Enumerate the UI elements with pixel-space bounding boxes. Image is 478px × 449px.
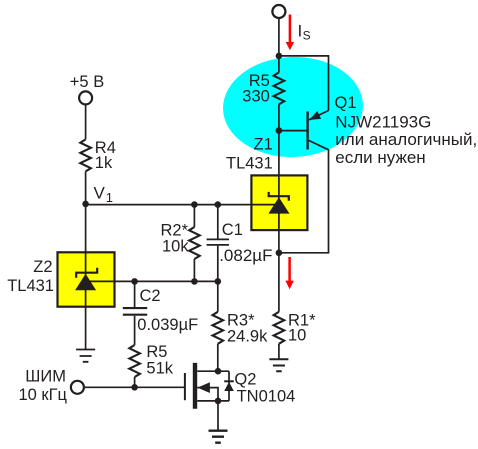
terminal PWM input bbox=[71, 381, 84, 394]
svg-text:.082µF: .082µF bbox=[219, 246, 272, 265]
resistor R1* 10 bbox=[278, 253, 280, 312]
Q2 body diode branch bbox=[228, 371, 230, 401]
terminal +5V bbox=[79, 91, 92, 104]
svg-text:R5: R5 bbox=[146, 343, 167, 361]
Z1 triangle bbox=[268, 197, 289, 213]
svg-text:ШИМ: ШИМ bbox=[25, 368, 66, 386]
wire top node to Q1 emitter bbox=[279, 56, 329, 111]
transistor Q2 channel bar bbox=[193, 363, 197, 409]
svg-text:если нужен: если нужен bbox=[335, 148, 425, 167]
svg-text:10 кГц: 10 кГц bbox=[18, 386, 67, 404]
node C2 top bbox=[131, 278, 138, 285]
transistor Q2 body arrow bbox=[197, 388, 218, 401]
node V1 bbox=[82, 201, 89, 208]
node R5 51k bottom bbox=[131, 384, 138, 391]
svg-text:10k: 10k bbox=[162, 238, 189, 256]
wire V1 down to Z2 and ground bbox=[85, 204, 87, 350]
svg-text:или аналогичный,: или аналогичный, bbox=[335, 130, 477, 149]
svg-text:TL431: TL431 bbox=[7, 277, 54, 295]
svg-text:TN0104: TN0104 bbox=[237, 388, 296, 406]
node top bbox=[276, 53, 283, 60]
TL431 shunt regulator Z1 box bbox=[251, 175, 307, 230]
svg-text:C2: C2 bbox=[140, 287, 161, 305]
resistor R4 1k bbox=[85, 104, 87, 139]
transistor Q1 collector bbox=[279, 140, 329, 252]
transistor Q1 emitter bbox=[309, 111, 329, 120]
resistor R5 330 bbox=[278, 56, 280, 73]
node Z1 anode bbox=[276, 250, 283, 257]
node Q2 source bbox=[215, 398, 222, 405]
Q2 body diode bbox=[224, 382, 234, 391]
capacitor C1 bbox=[217, 205, 219, 239]
Z2 cathode bar bbox=[76, 268, 97, 278]
node R2 top bbox=[191, 201, 198, 208]
svg-text:TL431: TL431 bbox=[226, 155, 273, 173]
svg-text:10: 10 bbox=[288, 327, 306, 345]
wire V1 bus to Z1 reference bbox=[86, 204, 276, 206]
resistor R3* 24.9k bbox=[217, 281, 219, 311]
transistor Q2 drain bbox=[197, 370, 229, 372]
node Q2 drain bbox=[215, 368, 222, 375]
wire PWM to Q2 gate bbox=[84, 386, 184, 388]
svg-text:I: I bbox=[298, 22, 303, 41]
svg-text:0.039µF: 0.039µF bbox=[137, 316, 198, 334]
terminal Is output bbox=[272, 5, 285, 18]
svg-text:Z1: Z1 bbox=[254, 136, 273, 154]
svg-text:Q2: Q2 bbox=[234, 371, 256, 389]
resistor R2* 10k bbox=[193, 205, 195, 227]
svg-text:C1: C1 bbox=[222, 221, 243, 239]
ground under Q2 bbox=[217, 401, 219, 431]
node C1 top bbox=[215, 201, 222, 208]
node base bbox=[276, 127, 283, 134]
svg-text:+5 В: +5 В bbox=[70, 73, 104, 91]
svg-text:24.9k: 24.9k bbox=[227, 328, 268, 346]
svg-text:S: S bbox=[303, 28, 311, 42]
TL431 shunt regulator Z2 box bbox=[58, 252, 115, 306]
node R2 bottom bbox=[191, 278, 198, 285]
transistor Q2 source bbox=[197, 400, 229, 402]
svg-text:V: V bbox=[94, 183, 106, 202]
current arrow at R1 bbox=[288, 257, 291, 281]
transistor Q2 gate bar bbox=[184, 373, 186, 400]
transistor Q1 base wire bbox=[279, 130, 307, 132]
svg-text:330: 330 bbox=[242, 87, 270, 105]
svg-text:1k: 1k bbox=[95, 154, 113, 172]
transistor Q1 base bar bbox=[306, 111, 308, 149]
Z2 reference wire bbox=[90, 280, 218, 282]
Z2 triangle bbox=[75, 274, 96, 291]
wire Z1 cathode-anode through box bbox=[278, 131, 280, 253]
svg-text:Z2: Z2 bbox=[33, 258, 52, 276]
resistor R5 51k bbox=[129, 345, 140, 377]
svg-text:NJW21193G: NJW21193G bbox=[335, 112, 431, 131]
svg-text:Q1: Q1 bbox=[335, 94, 357, 112]
ground under Z2 bbox=[76, 350, 95, 362]
svg-text:1: 1 bbox=[106, 190, 113, 205]
Z1 cathode bar bbox=[269, 192, 289, 201]
highlight ellipse around R5 and Q1 bbox=[221, 55, 364, 160]
current arrow Is bbox=[289, 15, 292, 43]
svg-text:51k: 51k bbox=[146, 359, 173, 377]
ground under R1 bbox=[269, 359, 288, 371]
wire terminal to top node bbox=[278, 18, 280, 56]
capacitor C2 bbox=[134, 281, 136, 307]
node C1 bottom R3 top bbox=[215, 278, 222, 285]
